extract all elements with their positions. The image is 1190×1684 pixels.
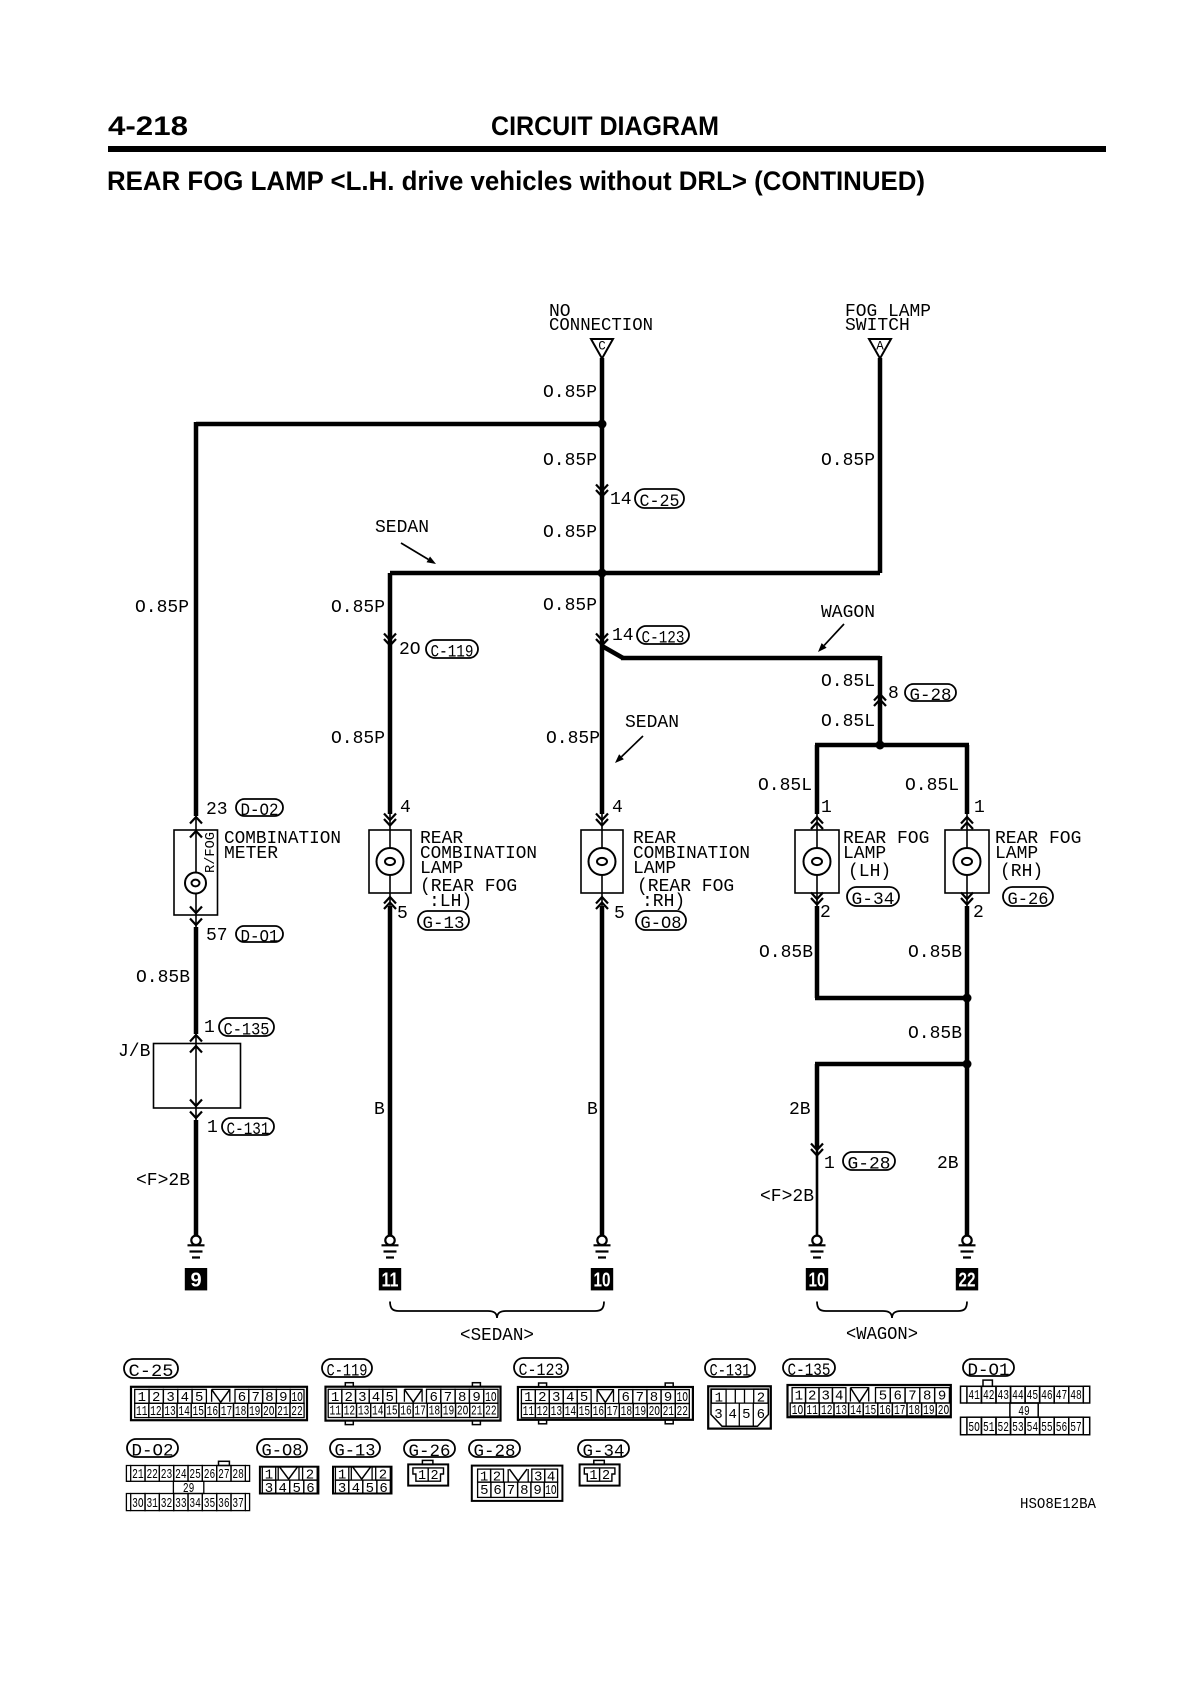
svg-text:C-119: C-119 xyxy=(327,1362,368,1382)
svg-text:O.85P: O.85P xyxy=(543,451,597,471)
svg-text:G-O8: G-O8 xyxy=(641,914,682,934)
svg-text:G-34: G-34 xyxy=(852,890,895,910)
svg-text:12: 12 xyxy=(821,1403,833,1419)
svg-text:C-123: C-123 xyxy=(642,629,685,649)
svg-text:2O: 2O xyxy=(457,1404,469,1420)
svg-text:16: 16 xyxy=(400,1404,412,1420)
svg-text:O.85B: O.85B xyxy=(759,943,813,963)
svg-text:11: 11 xyxy=(382,1270,399,1292)
svg-text:18: 18 xyxy=(909,1403,921,1419)
svg-text:O.85P: O.85P xyxy=(821,451,875,471)
svg-text:11: 11 xyxy=(330,1404,342,1420)
svg-text:14: 14 xyxy=(178,1404,190,1420)
svg-text:LAMP: LAMP xyxy=(843,844,886,864)
svg-text:1: 1 xyxy=(795,1388,803,1404)
svg-text:O.85L: O.85L xyxy=(821,712,875,732)
svg-text:1: 1 xyxy=(824,1154,835,1174)
svg-text:2O: 2O xyxy=(263,1404,275,1420)
svg-text:17: 17 xyxy=(607,1404,619,1420)
svg-text:G-O8: G-O8 xyxy=(262,1442,303,1462)
svg-text:C-25: C-25 xyxy=(129,1362,174,1382)
svg-text:22: 22 xyxy=(485,1404,497,1420)
svg-text:G-34: G-34 xyxy=(583,1442,625,1462)
svg-text:19: 19 xyxy=(249,1404,261,1420)
svg-text:6: 6 xyxy=(757,1407,765,1423)
svg-text:4: 4 xyxy=(352,1481,360,1497)
svg-text:4: 4 xyxy=(400,798,411,818)
svg-text:21: 21 xyxy=(277,1404,289,1420)
svg-text:2: 2 xyxy=(431,1469,439,1484)
svg-text:12: 12 xyxy=(150,1404,162,1420)
svg-text:5: 5 xyxy=(480,1483,488,1499)
svg-text:37: 37 xyxy=(232,1496,244,1512)
svg-text:14: 14 xyxy=(565,1404,577,1420)
svg-text:C-25: C-25 xyxy=(640,492,680,512)
svg-text:12: 12 xyxy=(344,1404,356,1420)
svg-text:1O: 1O xyxy=(545,1483,557,1499)
svg-text:43: 43 xyxy=(998,1388,1010,1404)
svg-text:14: 14 xyxy=(372,1404,384,1420)
svg-text:O.85P: O.85P xyxy=(543,523,597,543)
svg-text:57: 57 xyxy=(206,926,228,946)
svg-text:D-O1: D-O1 xyxy=(968,1361,1010,1381)
svg-text:11: 11 xyxy=(806,1403,818,1419)
svg-text:D-O2: D-O2 xyxy=(132,1442,174,1462)
svg-text:2B: 2B xyxy=(937,1154,959,1174)
svg-text:22: 22 xyxy=(291,1404,303,1420)
svg-text:D-O1: D-O1 xyxy=(241,928,279,948)
svg-text:C: C xyxy=(598,340,606,354)
svg-text:21: 21 xyxy=(132,1467,144,1483)
svg-text:46: 46 xyxy=(1041,1388,1053,1404)
svg-text:O.85L: O.85L xyxy=(758,776,812,796)
svg-text:2O: 2O xyxy=(399,640,421,660)
svg-text:13: 13 xyxy=(164,1404,176,1420)
svg-text:23: 23 xyxy=(161,1467,173,1483)
svg-text:15: 15 xyxy=(579,1404,591,1420)
svg-text:5: 5 xyxy=(742,1407,750,1423)
svg-text:26: 26 xyxy=(204,1467,216,1483)
svg-text:<WAGON>: <WAGON> xyxy=(846,1325,918,1345)
svg-text:47: 47 xyxy=(1056,1388,1068,1404)
svg-text:O.85B: O.85B xyxy=(908,1024,962,1044)
svg-text:15: 15 xyxy=(192,1404,204,1420)
svg-text:16: 16 xyxy=(879,1403,891,1419)
svg-text:(LH): (LH) xyxy=(848,862,891,882)
svg-text:1: 1 xyxy=(418,1469,426,1484)
svg-text:LAMP: LAMP xyxy=(995,844,1038,864)
svg-text:14: 14 xyxy=(610,490,632,510)
svg-text:17: 17 xyxy=(894,1403,906,1419)
svg-text:B: B xyxy=(587,1100,598,1120)
svg-text:SWITCH: SWITCH xyxy=(845,316,910,336)
svg-text:2: 2 xyxy=(757,1391,765,1407)
svg-text:LAMP: LAMP xyxy=(633,859,676,879)
svg-text:53: 53 xyxy=(1012,1420,1024,1436)
svg-text:21: 21 xyxy=(663,1404,675,1420)
svg-text:5: 5 xyxy=(397,904,408,924)
svg-text:7: 7 xyxy=(507,1483,515,1499)
svg-text:14: 14 xyxy=(850,1403,862,1419)
svg-text:19: 19 xyxy=(923,1403,935,1419)
svg-text:18: 18 xyxy=(235,1404,247,1420)
svg-text:13: 13 xyxy=(358,1404,370,1420)
svg-text:8: 8 xyxy=(520,1483,528,1499)
svg-text:2B: 2B xyxy=(789,1100,811,1120)
svg-text:34: 34 xyxy=(189,1496,201,1512)
svg-text:28: 28 xyxy=(232,1467,244,1483)
svg-text:56: 56 xyxy=(1056,1420,1068,1436)
svg-text:REAR FOG LAMP <L.H. drive vehi: REAR FOG LAMP <L.H. drive vehicles witho… xyxy=(107,166,925,196)
svg-text:4: 4 xyxy=(728,1407,736,1423)
svg-text:O.85P: O.85P xyxy=(543,596,597,616)
svg-text:4: 4 xyxy=(612,798,623,818)
svg-text:B: B xyxy=(374,1100,385,1120)
svg-text:O.85B: O.85B xyxy=(908,943,962,963)
svg-text:57: 57 xyxy=(1070,1420,1082,1436)
svg-text:G-28: G-28 xyxy=(848,1155,891,1175)
svg-text:48: 48 xyxy=(1070,1388,1082,1404)
svg-text:G-26: G-26 xyxy=(1008,890,1049,910)
svg-text:C-119: C-119 xyxy=(431,643,474,663)
svg-text:LAMP: LAMP xyxy=(420,859,463,879)
svg-text:44: 44 xyxy=(1012,1388,1024,1404)
svg-text:18: 18 xyxy=(621,1404,633,1420)
svg-text:54: 54 xyxy=(1027,1420,1039,1436)
svg-text:1: 1 xyxy=(974,798,985,818)
svg-text:1: 1 xyxy=(821,798,832,818)
svg-text:G-26: G-26 xyxy=(409,1442,451,1462)
svg-text:METER: METER xyxy=(224,844,278,864)
svg-text:2: 2 xyxy=(973,903,984,923)
svg-text:3: 3 xyxy=(714,1407,722,1423)
svg-text:WAGON: WAGON xyxy=(821,603,875,623)
svg-text:3: 3 xyxy=(338,1481,346,1497)
svg-text:O.85B: O.85B xyxy=(136,968,190,988)
svg-text:18: 18 xyxy=(429,1404,441,1420)
svg-text:5: 5 xyxy=(879,1388,887,1404)
svg-text:8: 8 xyxy=(923,1388,931,1404)
svg-text:2: 2 xyxy=(602,1469,610,1484)
svg-text:4: 4 xyxy=(278,1481,286,1497)
svg-text:22: 22 xyxy=(146,1467,158,1483)
svg-text:CONNECTION: CONNECTION xyxy=(549,316,653,336)
svg-text:9: 9 xyxy=(533,1483,541,1499)
svg-text:1: 1 xyxy=(715,1391,723,1407)
svg-text:2: 2 xyxy=(820,903,831,923)
svg-text::LH): :LH) xyxy=(429,892,472,912)
svg-text:12: 12 xyxy=(537,1404,549,1420)
svg-text:G-28: G-28 xyxy=(474,1442,516,1462)
svg-text:22: 22 xyxy=(959,1270,976,1292)
svg-text:21: 21 xyxy=(471,1404,483,1420)
svg-text:C-135: C-135 xyxy=(224,1021,270,1041)
svg-text:27: 27 xyxy=(218,1467,230,1483)
svg-text:32: 32 xyxy=(161,1496,173,1512)
svg-text:O.85L: O.85L xyxy=(905,776,959,796)
svg-text:2: 2 xyxy=(808,1388,816,1404)
svg-text:1: 1 xyxy=(204,1018,215,1038)
svg-text:(RH): (RH) xyxy=(1000,862,1043,882)
svg-text:G-28: G-28 xyxy=(910,686,952,706)
svg-text:4: 4 xyxy=(835,1388,843,1404)
svg-text:6: 6 xyxy=(893,1388,901,1404)
svg-text:8: 8 xyxy=(888,684,899,704)
svg-text::RH): :RH) xyxy=(642,892,685,912)
svg-text:13: 13 xyxy=(551,1404,563,1420)
svg-text:1: 1 xyxy=(589,1469,597,1484)
svg-text:17: 17 xyxy=(221,1404,233,1420)
svg-text:6: 6 xyxy=(493,1483,501,1499)
svg-text:O.85P: O.85P xyxy=(135,598,189,618)
svg-text:2O: 2O xyxy=(649,1404,661,1420)
svg-text:1O: 1O xyxy=(792,1403,804,1419)
svg-text:42: 42 xyxy=(983,1388,995,1404)
svg-text:7: 7 xyxy=(908,1388,916,1404)
svg-text:G-13: G-13 xyxy=(423,914,465,934)
svg-text:10: 10 xyxy=(809,1270,826,1292)
svg-text:6: 6 xyxy=(306,1481,314,1497)
svg-text:O.85P: O.85P xyxy=(543,383,597,403)
svg-text:16: 16 xyxy=(207,1404,219,1420)
svg-text:16: 16 xyxy=(593,1404,605,1420)
svg-text:11: 11 xyxy=(523,1404,535,1420)
svg-text:45: 45 xyxy=(1027,1388,1039,1404)
svg-text:<F>2B: <F>2B xyxy=(136,1171,190,1191)
svg-text:O.85P: O.85P xyxy=(546,729,600,749)
svg-text:35: 35 xyxy=(204,1496,216,1512)
svg-text:3: 3 xyxy=(821,1388,829,1404)
svg-text:17: 17 xyxy=(414,1404,426,1420)
svg-text:CIRCUIT DIAGRAM: CIRCUIT DIAGRAM xyxy=(491,111,719,141)
svg-text:SEDAN: SEDAN xyxy=(375,518,429,538)
svg-text:15: 15 xyxy=(386,1404,398,1420)
svg-text:J/B: J/B xyxy=(118,1042,151,1062)
svg-text:SEDAN: SEDAN xyxy=(625,713,679,733)
svg-text:6: 6 xyxy=(379,1481,387,1497)
svg-text:G-13: G-13 xyxy=(335,1442,376,1462)
svg-text:O.85P: O.85P xyxy=(331,729,385,749)
svg-text:<F>2B: <F>2B xyxy=(760,1187,814,1207)
svg-text:22: 22 xyxy=(677,1404,689,1420)
svg-text:5O: 5O xyxy=(968,1420,980,1436)
svg-text:1: 1 xyxy=(207,1118,218,1138)
svg-text:C-131: C-131 xyxy=(710,1362,751,1382)
svg-text:52: 52 xyxy=(998,1420,1010,1436)
svg-text:19: 19 xyxy=(443,1404,455,1420)
svg-text:O.85P: O.85P xyxy=(331,598,385,618)
svg-text:31: 31 xyxy=(146,1496,158,1512)
svg-text:10: 10 xyxy=(594,1270,611,1292)
svg-text:D-O2: D-O2 xyxy=(241,801,279,821)
svg-text:55: 55 xyxy=(1041,1420,1053,1436)
svg-text:33: 33 xyxy=(175,1496,187,1512)
svg-text:C-131: C-131 xyxy=(227,1120,270,1140)
svg-text:13: 13 xyxy=(836,1403,848,1419)
svg-text:C-135: C-135 xyxy=(788,1361,831,1381)
svg-text:4-218: 4-218 xyxy=(108,111,188,141)
svg-text:C-123: C-123 xyxy=(519,1361,564,1381)
svg-text:5: 5 xyxy=(614,904,625,924)
svg-text:23: 23 xyxy=(206,800,228,820)
svg-text:5: 5 xyxy=(293,1481,301,1497)
svg-text:19: 19 xyxy=(635,1404,647,1420)
svg-text:51: 51 xyxy=(983,1420,995,1436)
svg-text:9: 9 xyxy=(190,1270,201,1292)
svg-text:3: 3 xyxy=(265,1481,273,1497)
svg-text:3O: 3O xyxy=(132,1496,144,1512)
svg-text:A: A xyxy=(876,340,884,354)
svg-text:2O: 2O xyxy=(938,1403,950,1419)
svg-text:5: 5 xyxy=(366,1481,374,1497)
svg-text:36: 36 xyxy=(218,1496,230,1512)
svg-text:R/FOG: R/FOG xyxy=(203,832,219,873)
svg-text:41: 41 xyxy=(968,1388,980,1404)
svg-text:11: 11 xyxy=(136,1404,148,1420)
svg-text:<SEDAN>: <SEDAN> xyxy=(460,1326,534,1346)
svg-text:14: 14 xyxy=(612,626,634,646)
svg-text:9: 9 xyxy=(938,1388,946,1404)
svg-text:O.85L: O.85L xyxy=(821,672,875,692)
svg-text:HSO8E12BA: HSO8E12BA xyxy=(1020,1497,1096,1513)
svg-text:15: 15 xyxy=(865,1403,877,1419)
